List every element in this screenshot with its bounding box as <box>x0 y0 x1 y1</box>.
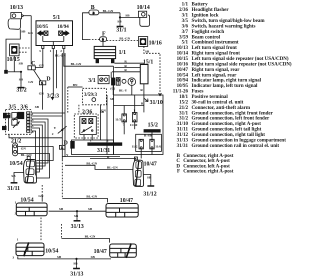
ignition switch symbol <box>128 78 136 86</box>
svg-text:31/31: 31/31 <box>177 144 189 149</box>
svg-text:10/47: 10/47 <box>94 249 107 255</box>
wire dashed from 10/15 pin 2 <box>19 51 26 53</box>
wire inside cluster left <box>42 36 44 42</box>
wire switch to left tail lamp 3 <box>31 125 42 169</box>
svg-text:BL-GN: BL-GN <box>119 36 130 40</box>
svg-text:5/1: 5/1 <box>182 41 189 46</box>
svg-text:Headlight flasher: Headlight flasher <box>192 8 230 13</box>
svg-text:BL-GN: BL-GN <box>103 9 114 13</box>
fuse 11/30 <box>132 113 137 122</box>
svg-text:SB: SB <box>35 105 40 109</box>
svg-text:30-rail in central el. unit: 30-rail in central el. unit <box>192 100 244 105</box>
wire BL-GN to lamp 10/47 A <box>62 199 107 203</box>
wire GN down to lamp <box>36 146 53 160</box>
wire SB drop to ground 31/1 <box>119 17 121 23</box>
30-rail 15/2 bar <box>144 129 161 132</box>
svg-text:10/94: 10/94 <box>57 25 69 30</box>
svg-text:30: 30 <box>7 114 11 118</box>
ground 31/1 <box>117 23 124 26</box>
svg-text:GN: GN <box>21 146 27 150</box>
svg-text:11/5: 11/5 <box>115 117 121 121</box>
svg-text:31/31: 31/31 <box>97 148 110 154</box>
wire SB drop to ground 31/13 <box>76 211 78 217</box>
svg-text:31/10: 31/10 <box>150 100 163 106</box>
junction SB ground row A <box>76 210 78 212</box>
svg-text:3/5: 3/5 <box>182 19 189 24</box>
svg-text:10/47: 10/47 <box>144 162 157 168</box>
fuse 11/5 <box>122 114 127 122</box>
svg-text:SB: SB <box>88 207 93 211</box>
wire SB to ground junction <box>8 71 21 73</box>
svg-text:GN: GN <box>39 63 45 67</box>
beam control 3/59 box <box>83 88 107 105</box>
svg-text:Ground connection rail in cent: Ground connection rail in central el. un… <box>192 144 280 149</box>
wire switch to left tail lamp 4 <box>31 128 39 172</box>
svg-text:1: 1 <box>15 200 17 204</box>
svg-text:Right turn signal, rear: Right turn signal, rear <box>192 68 241 73</box>
fuse box 11/2 11/6 <box>136 134 162 151</box>
switch assembly box 3/5 3/6 <box>6 110 32 135</box>
svg-text:3/59:3: 3/59:3 <box>84 93 98 98</box>
svg-text:3/1: 3/1 <box>88 78 96 84</box>
beam control lamp <box>92 98 96 102</box>
svg-text:SB: SB <box>21 30 26 34</box>
svg-text:2/36: 2/36 <box>179 8 188 13</box>
wire cluster centre drop <box>52 42 54 46</box>
svg-text:3: 3 <box>12 255 14 259</box>
wire 2/36 to ground rail 2 <box>91 135 93 140</box>
battery terminal posts <box>96 59 99 64</box>
svg-text:SB: SB <box>59 207 64 211</box>
wire fuse 11/6 down <box>151 149 153 155</box>
svg-text:GN: GN <box>28 31 34 35</box>
svg-text:10/47: 10/47 <box>177 68 189 73</box>
svg-text:GN: GN <box>38 194 44 198</box>
svg-text:15/2: 15/2 <box>148 123 158 129</box>
wire 2/36 to ground rail <box>83 135 85 140</box>
svg-text:31/13: 31/13 <box>71 224 84 230</box>
svg-text:SB: SB <box>11 174 16 178</box>
svg-text:Ignition lock: Ignition lock <box>192 14 219 19</box>
central unit box right <box>114 95 164 155</box>
wire BL-GN to central unit <box>64 49 114 67</box>
svg-text:BL-GN: BL-GN <box>107 165 118 169</box>
svg-text:3/1: 3/1 <box>182 14 189 19</box>
svg-text:21/2: 21/2 <box>11 139 21 145</box>
connector 10/13 <box>11 13 24 19</box>
wire fuse 11/30 to 30-rail <box>134 122 136 129</box>
svg-text:2/36: 2/36 <box>82 110 92 116</box>
svg-text:F: F <box>177 170 180 175</box>
wire SB from 10/54 to ground <box>14 173 24 180</box>
indicator lamp 10/94 right turn <box>59 31 69 35</box>
svg-text:10/95: 10/95 <box>37 25 49 30</box>
wire R rail in central unit <box>114 105 144 107</box>
wire SB from 10/47 to ground <box>144 175 151 183</box>
indicator lamp 10/95 left turn <box>38 31 48 35</box>
crossing diagonal wire <box>58 126 67 133</box>
svg-text:GN: GN <box>28 80 34 84</box>
wire switch to left tail lamp 5 <box>31 131 36 175</box>
wire BL-GN down <box>36 153 49 178</box>
svg-text:31/13: 31/13 <box>177 138 189 143</box>
arrow to ground 31/10 <box>159 93 162 96</box>
svg-text:SB: SB <box>74 214 79 218</box>
ground rail 31/31 <box>87 142 122 145</box>
svg-text:(C): (C) <box>110 87 115 91</box>
svg-text:3/59: 3/59 <box>179 35 188 40</box>
svg-text:10/95: 10/95 <box>177 84 189 89</box>
lamp 10/47 right rear row B <box>110 243 137 258</box>
svg-text:2: 2 <box>52 132 54 136</box>
svg-text:Indicator lamp, left turn sign: Indicator lamp, left turn signal <box>192 84 258 89</box>
svg-text:31/11: 31/11 <box>7 186 20 192</box>
wire dashed BL-GN down <box>61 160 63 199</box>
svg-text:Ground connection, left front: Ground connection, left front fender <box>192 117 271 122</box>
legend: component list <box>173 3 292 175</box>
svg-text:1: 1 <box>50 49 52 53</box>
ground 31/11 <box>11 180 18 183</box>
svg-text:18/1: 18/1 <box>179 95 188 100</box>
svg-text:Ground connection, left tail l: Ground connection, left tail light <box>192 128 262 133</box>
svg-text:3/6: 3/6 <box>182 24 189 29</box>
wire F to battery <box>102 41 104 46</box>
headlight flasher 2/36 box <box>74 114 98 138</box>
svg-text:2: 2 <box>60 49 62 53</box>
wire SB from 10/15 <box>13 56 15 72</box>
wire switch to left tail lamp 2 <box>31 122 45 166</box>
svg-text:21/2: 21/2 <box>179 106 188 111</box>
wire Y to connector D <box>61 130 63 146</box>
svg-text:10/94: 10/94 <box>177 79 189 84</box>
svg-text:10/54: 10/54 <box>45 249 58 255</box>
wire BL-Y into central unit <box>112 85 114 95</box>
wire GN from 21/2 <box>18 145 54 147</box>
svg-text:10/16: 10/16 <box>149 40 162 46</box>
wire dashed GN to rear lamp A <box>41 185 43 195</box>
svg-text:SB: SB <box>91 255 96 259</box>
connector 10/14 <box>138 11 146 17</box>
svg-text:D: D <box>46 76 50 82</box>
svg-text:Right turn signal front: Right turn signal front <box>192 52 241 57</box>
wire BL-GN from B <box>99 12 120 14</box>
junction Y <box>61 129 63 131</box>
svg-text:SB: SB <box>145 49 150 53</box>
connector 30 on switch <box>3 113 10 118</box>
svg-text:10/13: 10/13 <box>177 46 189 51</box>
wire inside cluster right <box>63 36 65 42</box>
svg-text:Battery: Battery <box>192 3 209 8</box>
svg-text:15/2: 15/2 <box>179 100 188 105</box>
svg-text:SB: SB <box>110 97 115 101</box>
svg-text:10/13: 10/13 <box>10 5 23 11</box>
svg-text:Indicator lamp, right turn sig: Indicator lamp, right turn signal <box>192 79 262 84</box>
connector B pin 3 <box>89 10 99 15</box>
wire dashed BL-GN F to 10/16 <box>107 39 139 41</box>
wire bus to Y wire <box>64 53 66 157</box>
side repeater lamp 10/15 <box>10 44 20 56</box>
fuse 11/6 <box>150 139 154 149</box>
wire R battery to 15/1 lower <box>114 67 140 69</box>
wire dashed into F <box>89 39 100 41</box>
connector terminal block left <box>4 70 8 74</box>
ground 31/13 row B <box>73 265 80 268</box>
junction SB 31/1 <box>119 16 121 18</box>
switch 3/5 inner contacts <box>8 112 23 131</box>
connector D pin 1 <box>39 81 45 85</box>
arrow to 3/7 <box>51 97 55 100</box>
wire Y to right rear lamp <box>62 156 120 158</box>
wire switch bottom to bus <box>9 134 62 138</box>
svg-text:31/13: 31/13 <box>70 272 83 278</box>
wire GN vertical to connector C <box>30 16 32 65</box>
connector D pin 1 <box>59 145 65 149</box>
svg-text:Combined instrument: Combined instrument <box>192 41 239 46</box>
wire BL-GN to lamp 10/47 B <box>62 239 110 243</box>
instrument cluster box 5/1 <box>36 21 73 46</box>
ground 31/12 <box>147 183 154 186</box>
svg-text:Positive terminal: Positive terminal <box>192 95 229 100</box>
svg-text:Ground connection in luggage c: Ground connection in luggage compartment <box>192 138 287 143</box>
wire SB to 10/14 <box>120 16 138 18</box>
svg-text:31/12: 31/12 <box>177 133 189 138</box>
svg-text:SB: SB <box>125 13 130 17</box>
positive terminal 15/1 <box>140 65 148 84</box>
svg-text:Fuses: Fuses <box>192 90 204 95</box>
svg-text:31/12: 31/12 <box>143 191 156 197</box>
lamp 10/47 right rear row A <box>106 204 138 218</box>
switch terminal block <box>2 126 7 130</box>
svg-text:11/1-26: 11/1-26 <box>173 90 189 95</box>
svg-text:BL-GN: BL-GN <box>86 195 97 199</box>
svg-text:1/1: 1/1 <box>182 3 189 8</box>
svg-text:BL-GN: BL-GN <box>71 62 82 66</box>
connector C <box>28 66 35 70</box>
wire BL-GN from 21/2 <box>18 152 50 154</box>
svg-text:3: 3 <box>93 11 95 15</box>
svg-text:SB: SB <box>57 255 62 259</box>
wire from beam control to central unit <box>100 105 102 140</box>
arrow ground 31/10 <box>144 98 148 101</box>
wire SB between rear lamps row B <box>18 256 111 259</box>
wire cluster lamp join <box>43 41 64 43</box>
wire to fuse 11/5 <box>123 106 125 114</box>
svg-text:GN: GN <box>39 92 45 96</box>
wire SB drop to ground 31/2 <box>20 72 22 85</box>
svg-text:3: 3 <box>39 49 41 53</box>
svg-text:31/1: 31/1 <box>116 27 126 33</box>
wire 30-rail to fuse 11/6 <box>151 133 153 140</box>
svg-text:GN: GN <box>101 109 107 113</box>
wire GN to foglight switch 3/7 <box>52 49 54 97</box>
ignition contacts <box>112 78 127 86</box>
lamp 10/54 left rear row A <box>16 203 47 216</box>
svg-text:1: 1 <box>107 139 109 143</box>
svg-text:Switch, turn signal/high-low b: Switch, turn signal/high-low beam <box>192 19 266 24</box>
junction SB ground row B <box>75 258 77 260</box>
svg-text:11/6: 11/6 <box>155 145 161 149</box>
svg-text:10/54: 10/54 <box>9 161 22 167</box>
wire dashed bus <box>67 87 69 113</box>
lamp 10/54 left rear row B <box>16 242 44 256</box>
wire switch to bus 2 <box>31 115 62 117</box>
svg-text:SB: SB <box>73 262 78 266</box>
svg-text:Ground connection, right tail: Ground connection, right tail light <box>192 133 266 138</box>
wire dashed 3/59 to 2/36 <box>78 105 80 114</box>
lamp 10/47 right turn signal rear <box>133 160 144 186</box>
svg-text:10/16: 10/16 <box>177 62 189 67</box>
wire bus Y down <box>61 53 63 130</box>
connector F pin 3 <box>100 37 107 42</box>
svg-text:SB: SB <box>19 77 24 81</box>
switch pin row <box>27 112 30 133</box>
lamp 10/14 right turn signal front <box>140 15 150 26</box>
svg-text:1: 1 <box>17 238 19 242</box>
lamp 10/13 left turn signal front <box>8 19 20 30</box>
wire drop to SB junction <box>119 13 121 18</box>
svg-text:Beam control: Beam control <box>192 35 221 40</box>
wire R to right tail lamp 10/47 <box>90 158 136 160</box>
svg-text:BL-GN: BL-GN <box>85 235 96 239</box>
svg-text:BL-GN: BL-GN <box>86 161 97 165</box>
svg-text:SB: SB <box>117 20 122 24</box>
wire R to ignition <box>112 71 140 73</box>
svg-text:Connector, anti-theft alarm: Connector, anti-theft alarm <box>192 106 251 111</box>
svg-text:SB: SB <box>147 176 152 180</box>
pin 1 on lamp 10/47 <box>134 157 137 160</box>
svg-text:10/54: 10/54 <box>177 73 189 78</box>
svg-text:Left turn signal front: Left turn signal front <box>192 46 238 51</box>
svg-text:10/15: 10/15 <box>177 57 189 62</box>
lamp 10/54 left turn signal rear <box>24 160 37 184</box>
wire SB drop to ground 31/13 B <box>76 259 78 265</box>
svg-text:31/10: 31/10 <box>177 122 189 127</box>
wire SB from 10/13 lamp <box>6 29 20 72</box>
ground 31/13 row A <box>74 218 81 221</box>
wire dashed to lamp B left <box>40 218 42 242</box>
svg-text:31/1: 31/1 <box>179 111 188 116</box>
wire BL-GN down to central unit <box>113 66 115 95</box>
central unit box lower-left <box>72 140 114 155</box>
svg-text:31/2: 31/2 <box>16 88 26 94</box>
pin on lamp 10/54 <box>27 156 30 159</box>
svg-text:3: 3 <box>102 38 104 42</box>
svg-text:1: 1 <box>61 146 63 150</box>
side repeater lamp 10/16 <box>138 37 147 47</box>
wire BL-Y rail in central unit <box>106 95 108 155</box>
instrument pins <box>42 46 65 49</box>
wire R battery to 15/1 <box>114 62 144 64</box>
svg-text:Connector, right A-post: Connector, right A-post <box>183 170 234 175</box>
svg-text:Foglight switch: Foglight switch <box>192 30 225 35</box>
wire GN from D to turn signal switch <box>41 85 43 110</box>
wire switch to left tail lamp 1 <box>31 119 48 163</box>
svg-text:10/14: 10/14 <box>137 5 150 11</box>
wire GN into lamp A <box>41 195 43 202</box>
wire BN to beam control <box>68 86 83 88</box>
svg-text:Ground connection, right A-pos: Ground connection, right A-post <box>192 122 262 127</box>
svg-text:11/30: 11/30 <box>130 123 138 127</box>
wire BL-GN to right tail lamp <box>65 165 133 169</box>
ignition lock 3/1 <box>98 76 109 84</box>
wire GN from 10/13 <box>24 15 31 17</box>
svg-text:1: 1 <box>41 81 43 85</box>
svg-text:Right turn signal side repeate: Right turn signal side repeater (not USA… <box>192 62 292 67</box>
svg-text:Switch, hazard warning lights: Switch, hazard warning lights <box>192 24 256 29</box>
junction SB ground 31/2 <box>20 71 22 73</box>
svg-text:3/7: 3/7 <box>182 30 189 35</box>
wire from top to fuse 11/30 <box>134 95 136 113</box>
wire to beam control 3/59 <box>55 50 57 88</box>
ground 31/2 <box>18 84 25 87</box>
wire fuse 11/2 down <box>140 149 142 159</box>
svg-text:10/14: 10/14 <box>177 52 189 57</box>
svg-text:Left turn signal side repeater: Left turn signal side repeater (not USA/… <box>192 57 289 62</box>
terminal block central unit <box>70 141 74 149</box>
battery 1/1 <box>94 46 115 58</box>
wire R from 15/1 down to fuse <box>143 84 145 113</box>
relay 2/36 inner box <box>80 117 97 135</box>
wire GN pin3 to connector C <box>35 49 43 68</box>
wire R into ignition contact <box>110 72 112 78</box>
svg-text:SB: SB <box>19 62 24 66</box>
wire SB between rear lamps row A <box>49 210 107 212</box>
wire stub into 15/1 <box>143 63 145 64</box>
wire from connector B down to F <box>83 13 89 40</box>
svg-text:Left turn signal, rear: Left turn signal, rear <box>192 73 238 78</box>
wire dashed BL-GN row B <box>61 224 63 239</box>
wire from ignition switch down <box>131 86 133 96</box>
svg-text:BN: BN <box>73 83 78 87</box>
connector 21/2 <box>13 143 18 156</box>
wire from D down <box>61 149 63 159</box>
svg-text:1/1: 1/1 <box>119 50 127 56</box>
svg-text:Ground connection, right front: Ground connection, right front fender <box>192 111 274 116</box>
wire GN diagonal C to D <box>34 70 41 81</box>
svg-text:3: 3 <box>15 211 17 215</box>
wire fuse 11/5 down <box>123 122 125 134</box>
fuse 11/2 <box>139 139 143 149</box>
svg-text:31/11: 31/11 <box>177 128 189 133</box>
wire switch to bus 1 <box>31 112 65 114</box>
svg-text:BL-Y: BL-Y <box>119 88 128 92</box>
svg-text:31/2: 31/2 <box>179 117 188 122</box>
wire dashed SB from 10/16 to 31/10 <box>144 46 160 96</box>
wire dashed from 10/15 <box>19 47 29 49</box>
svg-text:11/2: 11/2 <box>132 145 138 149</box>
